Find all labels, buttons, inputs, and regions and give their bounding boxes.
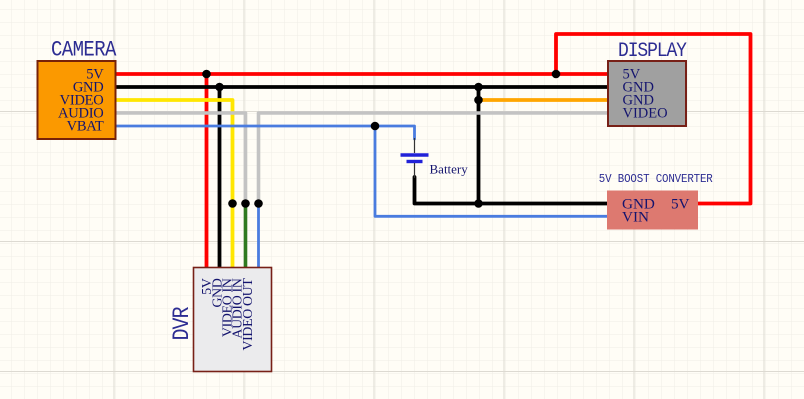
wire net VBAT: junction to battery plus (375, 126, 415, 139)
wire net VBAT: camera VBAT to junction (114, 125, 375, 128)
svg-text:DISPLAY: DISPLAY (618, 39, 687, 62)
junction GND bus at battery row (474, 199, 483, 208)
svg-text:DVR: DVR (170, 306, 196, 340)
wire net GND: camera GND to display GND (114, 85, 609, 89)
wire net 5V: camera 5V to display 5V (114, 72, 609, 76)
wire net 5V: detour to boost converter 5V output (556, 34, 751, 204)
wire net VBAT: junction down to boost converter VIN (375, 126, 608, 216)
wire net VIDEO OUT: blue segment from DVR VIDEO OUT (257, 204, 260, 270)
junction gray-green AUDIO (241, 199, 250, 208)
junction on GND at battery drop (474, 83, 483, 92)
wire net VIDEO: camera VIDEO to DVR VIDEO IN (114, 100, 233, 269)
svg-text:VIDEO: VIDEO (623, 106, 668, 122)
battery BT1 plus plate (401, 153, 429, 156)
battery BT1 minus lead (414, 163, 416, 178)
wire net AUDIO: camera AUDIO gray segment (114, 113, 246, 204)
svg-text:5V BOOST CONVERTER: 5V BOOST CONVERTER (599, 173, 713, 187)
camera U1 body (38, 61, 116, 139)
battery BT1 minus plate (407, 160, 423, 163)
wire net VIDEO OUT: gray segment DVR to display VIDEO (259, 113, 610, 204)
svg-text:VIN: VIN (622, 208, 649, 225)
junction on 5V at boost detour (552, 70, 561, 79)
junction on 5V at DVR drop (202, 70, 211, 79)
svg-text:Battery: Battery (430, 162, 469, 177)
dvr U4 body (194, 268, 272, 372)
wire net GND: orange tap to display GND2 (479, 98, 610, 102)
junction GND-orange tap (474, 96, 483, 105)
junction on GND at DVR drop (215, 83, 224, 92)
svg-text:CAMERA: CAMERA (51, 38, 117, 63)
svg-text:5V: 5V (671, 195, 690, 212)
display U2 body (608, 61, 686, 126)
junction gray-blue VIDEO OUT (254, 199, 263, 208)
junction yellow VIDEO bend (228, 199, 237, 208)
wire net 5V: junction to DVR 5V (205, 74, 209, 269)
battery BT1 plus lead (414, 138, 416, 153)
wire net GND: battery minus to boost converter GND (415, 177, 609, 204)
boost converter U3 body (607, 191, 698, 230)
wire net GND: junction to DVR GND (218, 87, 222, 269)
svg-text:VBAT: VBAT (67, 119, 104, 135)
junction on VBAT at battery (371, 122, 380, 131)
svg-text:VIDEO OUT: VIDEO OUT (240, 278, 255, 351)
wire net AUDIO: green segment to DVR AUDIO IN (244, 204, 248, 270)
wire net GND: vertical drop to battery minus bus (477, 87, 481, 204)
